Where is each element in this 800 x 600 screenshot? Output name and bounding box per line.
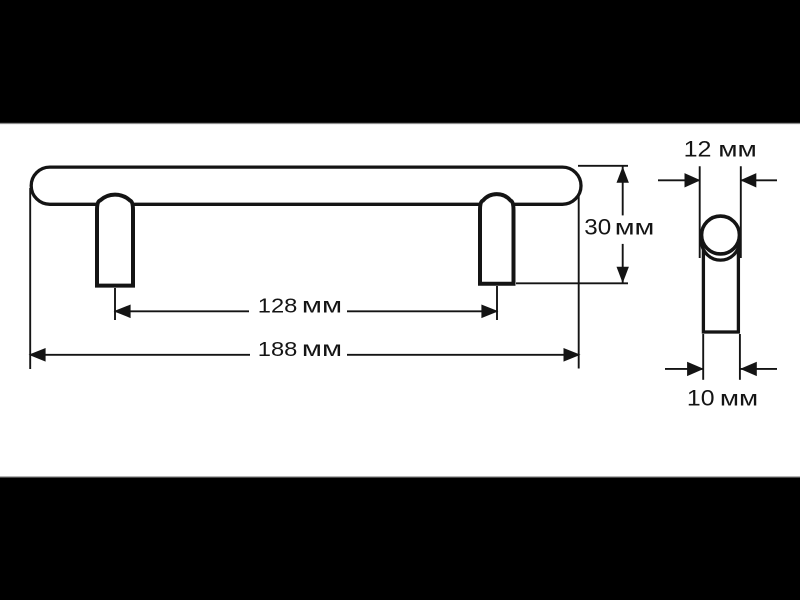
svg-text:10: 10 <box>687 386 715 410</box>
svg-text:мм: мм <box>718 138 757 162</box>
svg-text:мм: мм <box>302 338 342 361</box>
svg-text:мм: мм <box>302 294 342 317</box>
svg-text:128: 128 <box>258 294 298 317</box>
svg-text:188: 188 <box>258 338 298 361</box>
svg-text:мм: мм <box>720 388 758 411</box>
svg-text:12: 12 <box>684 137 712 161</box>
svg-text:30: 30 <box>584 215 611 240</box>
svg-text:мм: мм <box>615 216 655 239</box>
